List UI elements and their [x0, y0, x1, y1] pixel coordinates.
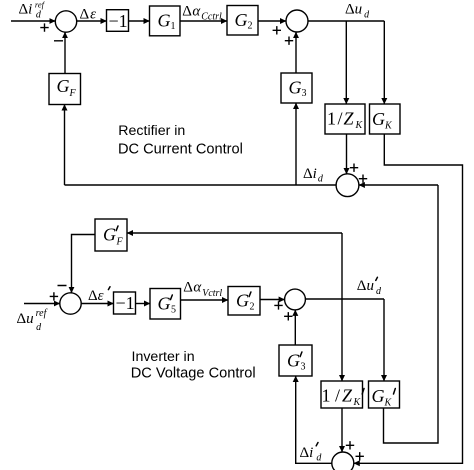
- svg-text:Δε: Δε: [80, 6, 97, 22]
- svg-text:Inverter in: Inverter in: [132, 349, 195, 365]
- svg-text:DC Current Control: DC Current Control: [118, 142, 243, 158]
- svg-text:DC Voltage Control: DC Voltage Control: [131, 366, 256, 382]
- svg-text:Δudref: Δudref: [17, 308, 48, 333]
- svg-text:G2: G2: [236, 291, 255, 313]
- svg-text:−1: −1: [109, 11, 128, 31]
- svg-text:G3: G3: [289, 78, 307, 100]
- svg-text:ΔαVctrl: ΔαVctrl: [183, 280, 222, 300]
- svg-text:Δud: Δud: [345, 2, 370, 21]
- svg-text:Δid: Δid: [303, 166, 324, 185]
- svg-text:GF: GF: [57, 76, 77, 99]
- svg-text:GF: GF: [103, 225, 124, 248]
- svg-text:Δud: Δud: [357, 278, 382, 297]
- svg-text:Δidref: Δidref: [19, 0, 46, 20]
- svg-text:G1: G1: [158, 11, 176, 33]
- svg-text:1/ZK: 1/ZK: [327, 109, 364, 132]
- svg-text:Δid: Δid: [300, 445, 323, 464]
- svg-text:G2: G2: [235, 10, 253, 32]
- svg-text:Rectifier in: Rectifier in: [118, 123, 185, 139]
- svg-text:−1: −1: [116, 293, 135, 313]
- svg-text:G3: G3: [287, 351, 306, 373]
- svg-text:GK: GK: [372, 109, 393, 132]
- svg-text:1/ZK: 1/ZK: [322, 386, 362, 409]
- svg-text:ΔαCctrl: ΔαCctrl: [182, 4, 222, 23]
- svg-text:GK: GK: [372, 386, 393, 409]
- svg-text:G5: G5: [158, 294, 177, 316]
- svg-text:Δε: Δε: [88, 288, 104, 304]
